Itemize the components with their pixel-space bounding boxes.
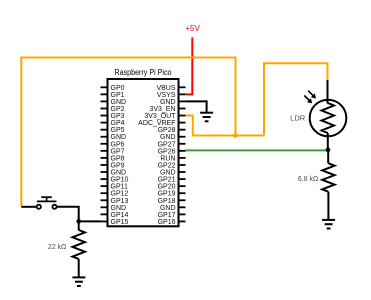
svg-text:GP18: GP18 — [158, 198, 176, 205]
wire LDR top terminal (black) — [327, 80, 329, 104]
pin GP14 (left 19) — [101, 212, 129, 219]
wire junction down to R1 — [78, 221, 80, 230]
pin GP15 (left 20) — [101, 219, 129, 226]
ground symbol below R1 — [72, 277, 85, 286]
wire R1 to ground — [78, 259, 80, 277]
svg-text:GP14: GP14 — [111, 212, 129, 219]
pin GP9 (left 12) — [101, 162, 125, 169]
svg-text:GND: GND — [160, 205, 176, 212]
resistor R1 22 kΩ — [73, 230, 85, 259]
svg-text:GP28: GP28 — [158, 127, 176, 134]
pin GP3 (left 5) — [101, 113, 125, 120]
pin GP5 (left 7) — [101, 127, 125, 134]
junction 3V3 net — [233, 133, 238, 138]
svg-text:GP22: GP22 — [158, 162, 176, 169]
svg-text:GP1: GP1 — [111, 92, 125, 99]
svg-text:GP12: GP12 — [111, 191, 129, 198]
ground symbol below R2 — [322, 220, 335, 229]
pin GP7 (left 10) — [101, 148, 125, 155]
svg-text:GND: GND — [160, 99, 176, 106]
svg-text:GP3: GP3 — [111, 113, 125, 120]
svg-text:3V3_EN: 3V3_EN — [149, 106, 175, 113]
svg-text:GP6: GP6 — [111, 141, 125, 148]
pin GP6 (left 9) — [101, 141, 125, 148]
junction GP15/R divider — [76, 219, 81, 224]
pin 3V3_OUT (right 5) — [144, 113, 185, 120]
wire +5V to VSYS (red) — [186, 38, 193, 95]
LDR resistor element — [322, 103, 334, 133]
svg-text:GND: GND — [111, 205, 127, 212]
svg-text:GP27: GP27 — [158, 141, 176, 148]
svg-text:VSYS: VSYS — [157, 92, 176, 99]
svg-text:GP26: GP26 — [158, 148, 176, 155]
svg-text:GP16: GP16 — [158, 219, 176, 226]
pin 3V3_EN (right 4) — [149, 106, 185, 113]
pin GP12 (left 16) — [101, 191, 129, 198]
wire 3V3_OUT to mid junction (orange) — [186, 116, 264, 136]
pin GP22 (right 12) — [158, 162, 186, 169]
pin VSYS (right 2) — [157, 92, 186, 99]
svg-text:GP9: GP9 — [111, 162, 125, 169]
svg-text:GP0: GP0 — [111, 85, 125, 92]
pin GND (left 13) — [101, 170, 127, 177]
wire junction to R2 — [327, 150, 329, 163]
junction LDR/R2 — [326, 148, 331, 153]
svg-text:GP2: GP2 — [111, 106, 125, 113]
pin GP20 (right 15) — [158, 184, 186, 191]
IC U1 Raspberry Pi Pico body — [108, 79, 179, 226]
svg-text:22 kΩ: 22 kΩ — [48, 244, 66, 251]
wire GP26 to LDR/R2 junction (green) — [186, 149, 328, 151]
light arrow 2 — [304, 96, 312, 104]
LDR photoresistor body — [310, 100, 347, 137]
svg-text:GP8: GP8 — [111, 155, 125, 162]
pin GP17 (right 19) — [158, 212, 186, 219]
pin GP18 (right 17) — [158, 198, 186, 205]
light arrow 1 — [308, 91, 316, 99]
svg-text:GP19: GP19 — [158, 191, 176, 198]
pin GP8 (left 11) — [101, 155, 125, 162]
svg-text:GP20: GP20 — [158, 184, 176, 191]
svg-text:ADC_VREF: ADC_VREF — [138, 120, 175, 127]
pin VBUS (right 1) — [156, 85, 185, 92]
pin GP4 (left 6) — [101, 120, 125, 127]
wire button right terminal to GP15 — [57, 207, 101, 222]
pin RUN (right 11) — [160, 155, 185, 162]
pin GND (left 8) — [101, 134, 127, 141]
svg-text:GP10: GP10 — [111, 177, 129, 184]
pin GP0 (left 1) — [101, 85, 125, 92]
pin GND (right 3) — [160, 99, 186, 106]
svg-text:GND: GND — [160, 170, 176, 177]
svg-text:GP13: GP13 — [111, 198, 129, 205]
svg-text:GP17: GP17 — [158, 212, 176, 219]
ground symbol near chip — [200, 113, 213, 122]
pin GND (right 8) — [160, 134, 186, 141]
pin GP28 (right 7) — [158, 127, 186, 134]
svg-text:+5V: +5V — [185, 24, 200, 33]
pin GP27 (right 9) — [158, 141, 186, 148]
pin GP21 (right 14) — [158, 177, 186, 184]
svg-text:GND: GND — [111, 170, 127, 177]
pin GP2 (left 4) — [101, 106, 125, 113]
wire to LDR top (orange) — [264, 63, 328, 135]
svg-text:LDR: LDR — [290, 114, 306, 123]
wire R2 to ground — [327, 192, 329, 220]
svg-text:GP7: GP7 — [111, 148, 125, 155]
svg-text:GP21: GP21 — [158, 177, 176, 184]
pin GP26 (right 10) — [158, 148, 186, 155]
svg-text:RUN: RUN — [160, 155, 175, 162]
push button S1 — [37, 197, 57, 209]
resistor R2 6.8 kΩ — [322, 163, 334, 191]
pin GP13 (left 17) — [101, 198, 129, 205]
pin GP1 (left 2) — [101, 92, 125, 99]
wire orange corner to button left terminal — [21, 206, 36, 208]
pin GP10 (left 14) — [101, 177, 129, 184]
svg-text:GP11: GP11 — [111, 184, 128, 191]
svg-text:GP5: GP5 — [111, 127, 125, 134]
pin GP19 (right 16) — [158, 191, 186, 198]
pin GP11 (left 15) — [101, 184, 128, 191]
svg-text:GND: GND — [111, 99, 127, 106]
svg-text:Raspberry Pi Pico: Raspberry Pi Pico — [115, 68, 172, 77]
svg-text:GP4: GP4 — [111, 120, 125, 127]
pin GND (left 18) — [101, 205, 127, 212]
pin GND (left 3) — [101, 99, 127, 106]
svg-text:VBUS: VBUS — [156, 85, 175, 92]
wire LDR bottom to junction — [327, 133, 329, 150]
svg-text:GND: GND — [160, 134, 176, 141]
svg-text:3V3_OUT: 3V3_OUT — [144, 113, 176, 120]
pin ADC_VREF (right 6) — [138, 120, 185, 127]
pin GND (right 13) — [160, 170, 186, 177]
pin GND (right 18) — [160, 205, 186, 212]
svg-text:GP15: GP15 — [111, 219, 129, 226]
wire top-left loop to push button (orange) — [21, 58, 235, 207]
svg-text:GND: GND — [111, 134, 127, 141]
wire GND pin to ground (black) — [186, 101, 207, 112]
svg-text:6.8 kΩ: 6.8 kΩ — [298, 176, 318, 183]
pin GP16 (right 20) — [158, 219, 186, 226]
